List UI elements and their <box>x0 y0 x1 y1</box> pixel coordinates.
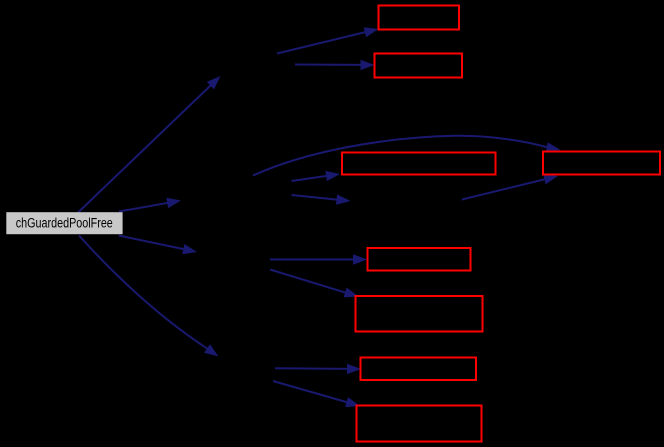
svg-text:chGuardedPoolFree: chGuardedPoolFree <box>16 216 113 231</box>
edge nodeE->box5 <box>270 254 367 264</box>
edge nodeE->box6 <box>270 270 359 298</box>
edge gray->nodeB <box>119 198 181 212</box>
red box 4 (right) <box>543 152 660 175</box>
red box 5 <box>368 248 471 271</box>
edge nodeB->box3 <box>292 171 341 181</box>
edge nodeA->box2 <box>295 60 375 70</box>
edge nodeB->box4 (curved over box3) <box>253 136 561 176</box>
edge nodeF->box7 <box>275 364 361 374</box>
node chGuardedPoolFree (gray) <box>6 212 122 234</box>
edge nodeA->box1 <box>277 27 379 53</box>
red box 3 (middle) <box>342 153 496 175</box>
edge nodeF->box8 <box>273 381 360 407</box>
red box 6 (two-line) <box>356 296 483 332</box>
edge gray->nodeE <box>119 236 197 255</box>
red box 2 <box>375 54 463 78</box>
edge nodeD->box4 <box>462 174 558 199</box>
red box 8 (two-line) <box>357 406 482 442</box>
red box 1 (top) <box>379 6 460 30</box>
edge gray->nodeF (slight sag) <box>79 236 219 357</box>
edge nodeB->nodeD <box>292 194 351 204</box>
edge gray->nodeA <box>78 76 221 213</box>
red box 7 <box>361 358 477 381</box>
